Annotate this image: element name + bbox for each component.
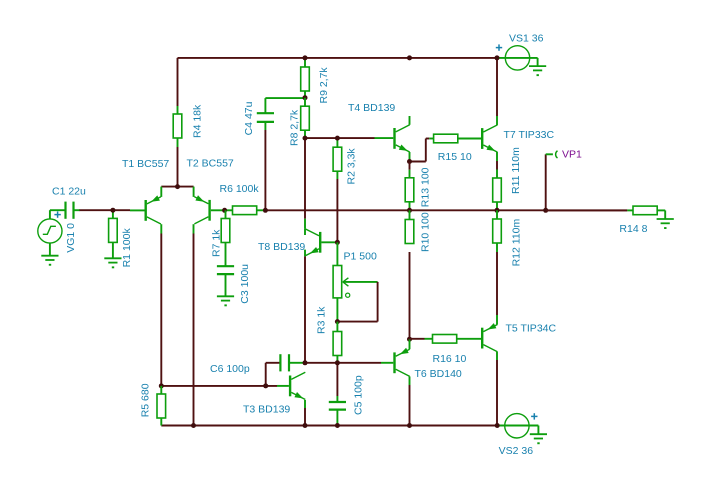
svg-text:T8 BD139: T8 BD139 <box>258 241 305 253</box>
transistor T6 BD140 <box>393 339 462 380</box>
wire bottom rail <box>161 425 497 427</box>
wire T1 emitter stub <box>160 187 162 197</box>
probe VP1 <box>546 149 582 161</box>
svg-text:R2 3,3k: R2 3,3k <box>346 148 358 185</box>
svg-text:R13 100: R13 100 <box>420 167 432 207</box>
node R2 top <box>335 136 340 141</box>
svg-text:T3 BD139: T3 BD139 <box>243 404 290 416</box>
wire T2 collector drop <box>193 224 195 425</box>
wire C4 branch down <box>264 130 266 210</box>
capacitor C6 <box>210 354 305 375</box>
ground of C3 <box>217 296 234 306</box>
transistor T2 BC557 <box>187 158 234 224</box>
svg-text:T7 TIP33C: T7 TIP33C <box>504 129 555 141</box>
svg-text:VG1 0: VG1 0 <box>65 223 77 253</box>
svg-text:R15 10: R15 10 <box>438 151 472 163</box>
svg-text:R11 110m: R11 110m <box>510 147 522 194</box>
transistor T7 TIP33C <box>481 125 554 152</box>
resistor R8 <box>289 98 310 146</box>
wire top supply rail <box>178 57 498 59</box>
node T6 emitter R16 <box>407 337 412 342</box>
node C5 rail <box>335 423 340 428</box>
wire T6 collector drop <box>409 376 411 425</box>
wire R12 bottom to T5 emitter riser <box>496 252 498 315</box>
svg-text:R10 100: R10 100 <box>420 212 432 252</box>
node R8 R9 junction <box>303 95 308 100</box>
svg-text:C6 100p: C6 100p <box>210 363 250 375</box>
node VS2 terminal <box>495 423 500 428</box>
svg-text:T4 BD139: T4 BD139 <box>348 102 395 114</box>
resistor R10 <box>405 210 431 252</box>
svg-text:R3 1k: R3 1k <box>316 306 328 334</box>
node R9 top <box>303 55 308 60</box>
capacitor C4 <box>243 101 274 135</box>
svg-text:R12 110m: R12 110m <box>511 218 523 266</box>
wire T8 emitter drop <box>304 256 306 363</box>
wire T7 collector riser <box>496 58 498 125</box>
wire R4 top lead <box>177 58 179 114</box>
svg-text:C1 22u: C1 22u <box>52 186 86 198</box>
ground of R14 <box>657 219 674 229</box>
resistor R6 <box>220 183 266 215</box>
ground of R1 <box>104 258 121 268</box>
svg-text:VP1: VP1 <box>562 149 582 161</box>
wire C5 drop <box>336 363 338 402</box>
node T1 collector R5 <box>159 383 164 388</box>
wire VP1 drop <box>545 154 547 210</box>
wire P1 wiper loop <box>337 290 377 322</box>
resistor R12 <box>493 210 523 266</box>
resistor R13 <box>405 162 431 211</box>
wire T1 collector drop <box>160 224 162 386</box>
resistor R11 <box>493 147 522 210</box>
wire T5 collector drop <box>496 352 498 426</box>
wire bias net to T6 base <box>305 362 393 364</box>
resistor R5 <box>140 383 166 425</box>
svg-text:R6 100k: R6 100k <box>220 183 260 195</box>
resistor R14 <box>546 206 666 235</box>
wire T2 emitter stub <box>193 187 195 197</box>
svg-text:R1 100k: R1 100k <box>121 228 133 268</box>
capacitor C3 <box>217 243 251 304</box>
svg-text:T2 BC557: T2 BC557 <box>187 158 234 170</box>
ground of VG1 <box>41 256 58 266</box>
node T3 emitter rail <box>303 423 308 428</box>
capacitor C5 <box>329 375 365 425</box>
wire C6 riser <box>266 363 281 386</box>
svg-text:R7 1k: R7 1k <box>211 229 223 257</box>
voltage source VS1 <box>496 33 544 71</box>
svg-text:VS1 36: VS1 36 <box>509 33 544 45</box>
svg-text:R8 2,7k: R8 2,7k <box>289 109 301 146</box>
svg-text:R16 10: R16 10 <box>433 353 467 365</box>
node VS1 terminal <box>495 55 500 60</box>
node top rail T4 <box>407 55 412 60</box>
node R6 right <box>263 208 268 213</box>
wire T3 base net <box>161 385 289 387</box>
node output rail R11 <box>495 208 500 213</box>
node R8 bottom <box>303 136 308 141</box>
svg-text:R4 18k: R4 18k <box>192 104 204 138</box>
voltage generator VG1 <box>38 210 77 256</box>
resistor R2 <box>333 138 357 184</box>
svg-text:T1 BC557: T1 BC557 <box>122 158 169 170</box>
node P1 bottom <box>335 319 340 324</box>
transistor T8 BD139 <box>258 228 337 256</box>
transistor T3 BD139 <box>243 372 305 415</box>
svg-text:C5 100p: C5 100p <box>353 375 365 415</box>
transistor T1 BC557 <box>122 158 169 224</box>
resistor R3 <box>316 306 342 363</box>
capacitor C1 <box>52 186 86 219</box>
wire R10 bottom to T6 emitter node <box>409 252 411 339</box>
resistor R9 <box>301 58 330 104</box>
svg-text:VS2 36: VS2 36 <box>499 445 534 457</box>
svg-text:T6 BD140: T6 BD140 <box>415 368 462 380</box>
wire input node <box>79 209 130 211</box>
wire T1-T2 emitter bus <box>161 186 193 188</box>
node R3 bottom <box>335 360 340 365</box>
voltage source VS2 <box>497 413 538 457</box>
wire T3 emitter drop <box>304 400 306 426</box>
transistor T5 TIP34C <box>481 315 556 352</box>
svg-text:R14 8: R14 8 <box>619 223 647 235</box>
ground of VS1 <box>529 66 546 76</box>
wire C4 branch up <box>265 98 305 113</box>
node emitters T1 T2 <box>175 184 180 189</box>
resistor R15 <box>429 134 481 163</box>
wire R2 bottom to T8 base node <box>336 179 338 242</box>
node T6 collector rail <box>407 423 412 428</box>
node T2 base <box>222 208 227 213</box>
wire R15 corner link <box>410 139 430 162</box>
svg-text:C3 100u: C3 100u <box>239 264 251 304</box>
wire T8 collector riser <box>304 138 306 228</box>
svg-text:R9 2,7k: R9 2,7k <box>318 67 330 104</box>
node R1 top <box>110 208 115 213</box>
svg-text:T5 TIP34C: T5 TIP34C <box>506 322 557 334</box>
resistor R16 <box>410 335 482 366</box>
ground of VS2 <box>530 434 547 444</box>
wire T4 base net <box>305 137 393 139</box>
node output VP1 <box>543 208 548 213</box>
svg-text:R5 680: R5 680 <box>140 383 152 417</box>
node T8 base <box>335 240 340 245</box>
potentiometer P1 <box>333 242 378 321</box>
node T3 collector C6 <box>303 360 308 365</box>
transistor T4 BD139 <box>348 102 410 162</box>
resistor R4 <box>173 104 203 138</box>
wire R4 bottom to emitter node <box>177 138 179 187</box>
resistor R1 <box>109 210 133 267</box>
node T3 base <box>263 383 268 388</box>
resistor R7 <box>211 210 230 257</box>
wire output rail <box>265 209 627 211</box>
svg-text:P1 500: P1 500 <box>344 251 377 263</box>
node T4 emitter <box>407 159 412 164</box>
node output rail R13 <box>407 208 412 213</box>
svg-text:C4 47u: C4 47u <box>243 101 255 135</box>
node T2 collector rail <box>191 423 196 428</box>
